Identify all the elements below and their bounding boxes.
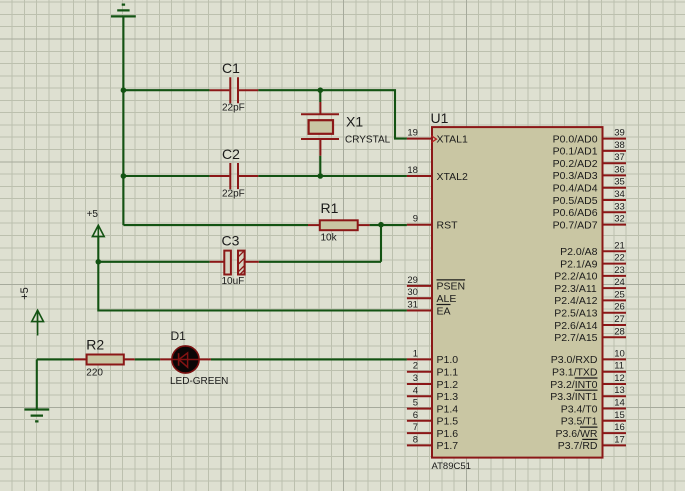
wire C1 left (123, 89, 209, 91)
svg-text:P1.7: P1.7 (437, 440, 459, 452)
wire D1 to P1.0 pin 1 (211, 358, 407, 360)
wire C3 left to +5 node (98, 261, 209, 263)
svg-text:5: 5 (413, 398, 418, 409)
wire +5 stem to node (97, 237, 99, 262)
pin 31 EA (407, 300, 451, 318)
pin 10 P3.0/RXD (551, 348, 626, 366)
pin 12 P3.2/INT0 (550, 373, 626, 391)
svg-text:P0.1/AD1: P0.1/AD1 (553, 146, 598, 158)
pin 25 P2.4/A12 (554, 289, 626, 307)
node junction +5/C3/EA (96, 259, 102, 265)
svg-text:31: 31 (407, 300, 418, 311)
svg-text:P0.2/AD2: P0.2/AD2 (553, 158, 598, 170)
svg-text:9: 9 (413, 214, 418, 225)
svg-text:P3.3/INT1: P3.3/INT1 (550, 391, 597, 403)
pin 2 P1.1 (407, 361, 458, 379)
svg-text:38: 38 (614, 140, 625, 151)
wire XTAL1 net to pin 19 (320, 90, 407, 138)
pin 18 XTAL2 (407, 165, 468, 183)
svg-text:22pF: 22pF (222, 103, 245, 114)
pin 19 XTAL1 (407, 128, 468, 146)
svg-text:P0.5/AD5: P0.5/AD5 (553, 195, 598, 207)
svg-text:26: 26 (614, 302, 625, 313)
svg-text:P2.0/A8: P2.0/A8 (560, 246, 598, 258)
svg-text:PSEN: PSEN (437, 281, 466, 293)
svg-text:P3.4/T0: P3.4/T0 (561, 403, 598, 415)
svg-text:P0.6/AD6: P0.6/AD6 (553, 207, 598, 219)
svg-text:+5: +5 (19, 287, 31, 300)
crystal X1 (301, 102, 339, 156)
svg-text:P1.6: P1.6 (437, 428, 459, 440)
svg-text:P3.2/INT0: P3.2/INT0 (550, 379, 597, 391)
pin 4 P1.3 (407, 385, 458, 403)
svg-text:13: 13 (614, 385, 625, 396)
wire RST down to C3 level (380, 225, 382, 262)
svg-text:P2.3/A11: P2.3/A11 (554, 283, 597, 295)
wire crystal top stub (319, 90, 321, 102)
svg-text:21: 21 (614, 240, 625, 251)
svg-text:17: 17 (614, 434, 625, 445)
capacitor C2 (210, 163, 259, 189)
wire RST-pulldown horizontal to R1 (123, 224, 308, 226)
svg-text:R2: R2 (86, 336, 104, 352)
svg-text:35: 35 (614, 177, 625, 188)
pin 7 P1.6 (407, 422, 458, 440)
svg-text:10uF: 10uF (222, 276, 245, 287)
wire EA net to pin 31 (98, 262, 407, 311)
svg-text:25: 25 (614, 289, 625, 300)
capacitor C1 (210, 77, 259, 103)
pin 29 PSEN (407, 275, 465, 293)
svg-text:7: 7 (413, 422, 418, 433)
svg-text:C2: C2 (222, 146, 240, 162)
svg-text:1: 1 (413, 348, 418, 359)
pin 27 P2.6/A14 (554, 314, 626, 332)
svg-text:P2.1/A9: P2.1/A9 (560, 258, 598, 270)
svg-text:P3.7/RD: P3.7/RD (558, 440, 598, 452)
capacitor C3 electrolytic (210, 251, 259, 275)
svg-text:28: 28 (614, 326, 625, 337)
svg-text:18: 18 (407, 165, 418, 176)
pin 13 P3.3/INT1 (550, 385, 626, 403)
svg-text:P1.2: P1.2 (437, 379, 459, 391)
pin 14 P3.4/T0 (561, 398, 626, 416)
pin 15 P3.5/T1 (561, 410, 626, 428)
resistor R2 (74, 355, 135, 365)
pin 8 P1.7 (407, 434, 458, 452)
pin 39 P0.0/AD0 (553, 128, 626, 146)
wire XTAL2 net to pin 18 (320, 175, 407, 177)
wire R2 left to ground corner (37, 358, 74, 360)
svg-text:P0.4/AD4: P0.4/AD4 (553, 183, 598, 195)
wire R1 to RST pin 9 (370, 224, 407, 226)
svg-text:U1: U1 (431, 110, 449, 126)
pin 21 P2.0/A8 (560, 240, 626, 258)
svg-text:C3: C3 (222, 233, 240, 249)
svg-text:37: 37 (614, 152, 625, 163)
pin 36 P0.3/AD3 (553, 164, 626, 182)
svg-text:11: 11 (614, 361, 624, 372)
svg-text:C1: C1 (222, 60, 240, 76)
pin 35 P0.4/AD4 (553, 177, 626, 195)
wire C3 right to RST (259, 261, 381, 263)
svg-text:15: 15 (614, 410, 625, 421)
pin 37 P0.2/AD2 (553, 152, 626, 170)
svg-text:P3.5/T1: P3.5/T1 (561, 416, 598, 428)
pin 32 P0.7/AD7 (553, 214, 626, 232)
pin 1 P1.0 (407, 348, 458, 366)
svg-text:24: 24 (614, 277, 625, 288)
svg-text:X1: X1 (346, 114, 363, 130)
svg-text:33: 33 (614, 201, 625, 212)
pin 26 P2.5/A13 (554, 302, 626, 320)
svg-text:19: 19 (407, 128, 418, 139)
svg-text:6: 6 (413, 410, 418, 421)
svg-text:CRYSTAL: CRYSTAL (345, 134, 391, 145)
svg-text:14: 14 (614, 398, 625, 409)
node junction C1/ground rail (121, 87, 127, 93)
pin 38 P0.1/AD1 (553, 140, 626, 158)
svg-text:P0.0/AD0: P0.0/AD0 (553, 133, 598, 145)
svg-text:32: 32 (614, 214, 625, 225)
pin XTAL1 clock arrow (431, 136, 436, 143)
IC U1 AT89C51 body (432, 127, 603, 458)
svg-text:4: 4 (413, 385, 418, 396)
LED D1 (green LED) (160, 346, 211, 373)
wire crystal bottom stub (319, 156, 321, 176)
svg-text:P3.0/RXD: P3.0/RXD (551, 354, 598, 366)
svg-text:LED-GREEN: LED-GREEN (170, 376, 228, 387)
svg-text:12: 12 (614, 373, 625, 384)
svg-text:10k: 10k (321, 232, 338, 243)
pin 16 P3.6/WR (556, 422, 627, 440)
svg-text:16: 16 (614, 422, 625, 433)
svg-text:34: 34 (614, 189, 625, 200)
svg-text:36: 36 (614, 164, 625, 175)
pin 24 P2.3/A11 (554, 277, 626, 295)
svg-text:39: 39 (614, 128, 625, 139)
svg-text:P1.0: P1.0 (437, 354, 459, 366)
resistor R1 (308, 220, 370, 230)
wire C2 right to crystal node (258, 175, 320, 177)
svg-text:AT89C51: AT89C51 (432, 461, 471, 472)
pin 30 ALE (407, 287, 456, 305)
svg-text:3: 3 (413, 373, 418, 384)
node junction XTAL2/C2/X1 (318, 173, 324, 179)
power +5 symbol (reset) (92, 225, 104, 236)
node junction C2/ground rail (121, 173, 127, 179)
svg-text:P2.2/A10: P2.2/A10 (554, 271, 597, 283)
svg-text:ALE: ALE (437, 293, 457, 305)
svg-text:+5: +5 (87, 209, 99, 220)
wire C1 right to crystal node (258, 89, 320, 91)
svg-text:22: 22 (614, 253, 625, 264)
ground (bottom left) (24, 410, 49, 422)
svg-text:P1.4: P1.4 (437, 403, 459, 415)
pin 9 RST (407, 214, 458, 232)
svg-text:P1.5: P1.5 (437, 416, 459, 428)
svg-text:23: 23 (614, 265, 625, 276)
pin 34 P0.5/AD5 (553, 189, 626, 207)
svg-text:8: 8 (413, 434, 418, 445)
svg-text:P2.4/A12: P2.4/A12 (554, 295, 597, 307)
pin 28 P2.7/A15 (554, 326, 626, 344)
svg-text:P2.6/A14: P2.6/A14 (554, 320, 597, 332)
pin 6 P1.5 (407, 410, 458, 428)
pin 5 P1.4 (407, 398, 458, 416)
wire down to ground (bottom) (36, 359, 38, 409)
svg-text:P1.3: P1.3 (437, 391, 459, 403)
wire C2 left (123, 175, 209, 177)
svg-text:P2.5/A13: P2.5/A13 (554, 308, 597, 320)
svg-text:2: 2 (413, 361, 418, 372)
svg-text:10: 10 (614, 348, 625, 359)
svg-text:P3.6/WR: P3.6/WR (556, 428, 598, 440)
pin 23 P2.2/A10 (554, 265, 626, 283)
node junction XTAL1/C1/X1 (318, 87, 324, 93)
svg-text:22pF: 22pF (222, 189, 245, 200)
pin 3 P1.2 (407, 373, 458, 391)
pin 22 P2.1/A9 (560, 253, 626, 271)
wire R2 to D1 (135, 358, 160, 360)
svg-text:27: 27 (614, 314, 625, 325)
svg-text:29: 29 (407, 275, 418, 286)
pin 17 P3.7/RD (558, 434, 626, 452)
ground (top, inverted) (111, 5, 136, 17)
svg-text:XTAL2: XTAL2 (437, 171, 468, 183)
svg-text:XTAL1: XTAL1 (437, 133, 468, 145)
svg-text:RST: RST (437, 220, 459, 232)
svg-text:P3.1/TXD: P3.1/TXD (552, 367, 598, 379)
pin 33 P0.6/AD6 (553, 201, 626, 219)
svg-text:R1: R1 (321, 200, 339, 216)
power +5 symbol (left, floating) (32, 310, 44, 335)
svg-text:P0.3/AD3: P0.3/AD3 (553, 170, 598, 182)
svg-text:D1: D1 (171, 329, 187, 343)
wire ground rail vertical (122, 16, 124, 225)
svg-text:P2.7/A15: P2.7/A15 (554, 332, 597, 344)
node junction RST/C3 (378, 222, 384, 228)
svg-text:EA: EA (437, 305, 451, 317)
svg-text:P0.7/AD7: P0.7/AD7 (553, 219, 598, 231)
pin 11 P3.1/TXD (552, 361, 626, 379)
svg-text:P1.1: P1.1 (437, 367, 459, 379)
svg-text:220: 220 (86, 367, 103, 378)
svg-text:30: 30 (407, 287, 418, 298)
